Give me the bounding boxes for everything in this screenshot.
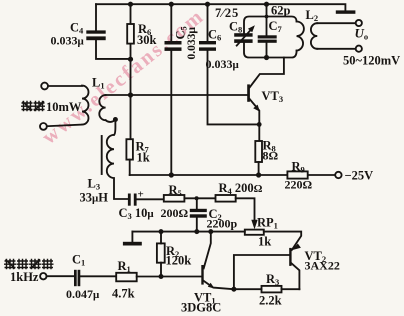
svg-text:0.033μ: 0.033μ — [51, 34, 85, 48]
svg-text:33μH: 33μH — [80, 191, 109, 205]
svg-text:R4 200Ω: R4 200Ω — [219, 181, 263, 196]
potentiometer RP1 body — [245, 230, 264, 235]
resistor R1 — [116, 273, 137, 282]
resistor R6 — [130, 4, 132, 139]
svg-text:2200p: 2200p — [207, 217, 238, 231]
svg-text:30k: 30k — [137, 33, 157, 47]
inductor L2 primary — [297, 22, 304, 51]
resistor R4 — [216, 195, 236, 202]
svg-text:8Ω: 8Ω — [263, 149, 279, 163]
inductor L1 primary — [47, 86, 89, 127]
wire -25V rail — [130, 174, 336, 176]
capacitor C8 (trimmer) — [234, 33, 252, 37]
svg-text:120k: 120k — [166, 254, 192, 268]
svg-text:1k: 1k — [137, 151, 150, 165]
svg-text:1k: 1k — [258, 235, 271, 249]
svg-text:+: + — [138, 189, 144, 201]
node C6/VT3 emitter junction — [257, 122, 262, 127]
svg-text:10mW: 10mW — [46, 100, 82, 114]
inductor L3 — [114, 120, 115, 135]
inductor L1 secondary — [99, 95, 115, 122]
resistor R5 — [164, 195, 185, 202]
svg-text:2.2k: 2.2k — [259, 294, 282, 308]
label carrier chinese 载波 — [21, 101, 45, 112]
capacitor C4 — [96, 4, 131, 59]
terminal -25V — [335, 172, 341, 178]
transistor VT3 — [247, 84, 250, 101]
wire collector rail — [132, 231, 244, 233]
svg-text:1kHz: 1kHz — [10, 270, 39, 284]
svg-text:220Ω: 220Ω — [285, 178, 313, 192]
svg-text:3AX22: 3AX22 — [305, 259, 340, 273]
ground (bottom) — [131, 232, 133, 242]
wire VT3 base — [106, 94, 248, 96]
svg-text:200Ω: 200Ω — [161, 206, 189, 220]
terminal Uo bottom — [356, 46, 362, 52]
terminal carrier top — [41, 83, 48, 90]
svg-text:50~120mV: 50~120mV — [343, 54, 400, 68]
svg-text:4.7k: 4.7k — [112, 287, 135, 301]
terminal signal input — [40, 273, 46, 279]
transistor VT1 — [201, 265, 203, 285]
svg-text:0.047μ: 0.047μ — [66, 287, 100, 301]
wire tank loop — [244, 17, 297, 58]
resistor R9 — [287, 171, 307, 178]
ground (top right) — [336, 10, 356, 13]
node R6/C4 junction — [128, 57, 133, 62]
svg-text:−25V: −25V — [345, 169, 374, 183]
inductor L2 secondary — [311, 23, 317, 49]
capacitor C3 (electrolytic) — [128, 194, 131, 206]
terminal Uo top — [356, 20, 362, 26]
wire top ground rail — [96, 4, 345, 10]
capacitor C5 — [170, 4, 172, 175]
capacitor C2 — [196, 198, 198, 231]
svg-text:62p: 62p — [271, 4, 291, 18]
resistor R8 — [255, 141, 262, 162]
resistor R3 — [262, 286, 282, 293]
label signal chinese 调制信号 — [4, 259, 54, 270]
svg-text:C3 10μ: C3 10μ — [119, 206, 155, 221]
svg-text:3DG8C: 3DG8C — [181, 301, 221, 315]
wire VT1 emitter to VT2 base — [234, 255, 289, 289]
svg-text:7⁄25: 7⁄25 — [215, 6, 239, 20]
capacitor C7 — [266, 4, 268, 57]
transistor VT2 — [289, 248, 291, 266]
svg-text:0.033μ: 0.033μ — [206, 57, 240, 71]
capacitor C6 — [208, 4, 260, 124]
potentiometer RP1 arrow — [251, 220, 257, 230]
svg-text:0.033μ: 0.033μ — [186, 27, 198, 60]
resistor R7 — [126, 139, 132, 159]
terminal carrier bottom — [40, 123, 47, 130]
wire output leads — [317, 23, 355, 49]
capacitor C1 — [74, 270, 77, 286]
resistor R2 — [157, 243, 165, 262]
